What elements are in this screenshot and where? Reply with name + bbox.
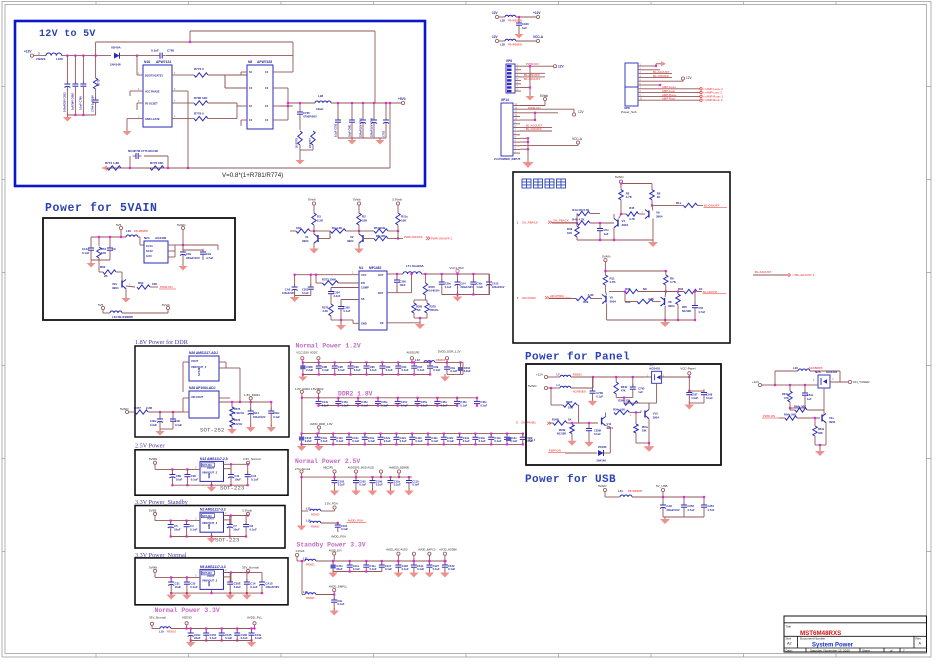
svg-text:R377: R377 [134,406,141,410]
svg-text:PWR-ON: PWR-ON [526,62,539,66]
svg-text:0.1uF: 0.1uF [354,368,361,372]
svg-text:N25: N25 [815,370,821,374]
svg-text:GND: GND [208,581,211,587]
svg-text:BL-ADJUST: BL-ADJUST [524,77,541,81]
svg-text:S2 D2: S2 D2 [146,250,153,253]
svg-text:0.1uF: 0.1uF [273,415,280,419]
svg-text:10uF: 10uF [176,478,183,482]
svg-text:3.3Vstb: 3.3Vstb [392,198,403,202]
svg-text:R771: R771 [97,79,101,86]
svg-text:Power for 5VAIN: Power for 5VAIN [45,202,158,215]
svg-text:0.1uF: 0.1uF [151,49,159,53]
svg-text:2.2uF: 2.2uF [306,368,313,372]
svg-text:10K: 10K [101,251,106,255]
svg-text:APW7124: APW7124 [156,60,171,64]
svg-text:R779 0: R779 0 [194,112,204,116]
svg-text:+12V: +12V [752,380,759,384]
svg-text:10K: 10K [296,226,301,230]
svg-text:C795: C795 [638,387,645,391]
svg-text:2.4K/1%: 2.4K/1% [234,411,245,415]
svg-text:0.1uF: 0.1uF [361,403,368,407]
svg-text:CA6: CA6 [285,288,291,292]
svg-text:5VMN: 5VMN [149,457,157,461]
svg-text:R62: R62 [100,265,106,269]
svg-text:R379: R379 [429,285,436,289]
svg-text:10uF: 10uF [174,528,181,532]
svg-text:5V_USB: 5V_USB [656,484,668,488]
svg-text:5VAIN: 5VAIN [602,255,610,259]
svg-text:5VAIN: 5VAIN [177,223,185,227]
svg-text:C914: C914 [253,411,260,415]
svg-text:C354: C354 [707,504,714,508]
svg-text:N16: N16 [144,60,150,64]
svg-text:0.1uF: 0.1uF [322,368,329,372]
svg-text:2.2uF: 2.2uF [234,585,242,589]
svg-text:5Vstb: 5Vstb [353,198,361,202]
svg-text:VCC: VCC [361,273,367,277]
svg-text:NC: NC [643,287,647,291]
svg-text:AVDD_ADC AUD0: AVDD_ADC AUD0 [386,548,408,552]
svg-text:L71 10uH/3A: L71 10uH/3A [406,264,425,268]
svg-text:33K: 33K [818,431,823,435]
svg-text:AVDD_DVI: AVDD_DVI [329,548,342,552]
svg-text:1.8V Power for DDR: 1.8V Power for DDR [135,339,189,346]
svg-text:C309: C309 [400,280,407,284]
svg-text:G D3: G D3 [146,255,152,258]
svg-text:R34B: R34B [559,428,566,432]
svg-text:GND: GND [208,473,211,479]
svg-text:0.040/1%: 0.040/1% [429,289,441,293]
svg-text:0.1uF: 0.1uF [448,567,455,571]
svg-text:N13 AMS1117-2.5: N13 AMS1117-2.5 [200,457,228,461]
svg-text:1.8V_DDR2: 1.8V_DDR2 [244,393,260,397]
svg-text:Normal Power 3.3V: Normal Power 3.3V [155,607,220,614]
svg-text:R30: R30 [625,287,631,291]
svg-text:FB0603: FB0603 [306,564,315,567]
svg-text:C25M: C25M [594,429,601,433]
svg-text:12V: 12V [492,35,499,39]
svg-text:CA8: CA8 [666,504,672,508]
svg-text:0.1uF: 0.1uF [210,636,217,640]
svg-text:0.1uF: 0.1uF [433,368,440,372]
svg-text:NC/10K: NC/10K [557,432,566,436]
svg-text:10K: 10K [567,231,572,235]
svg-text:22uF: 22uF [336,567,343,571]
svg-text:0.1uF: 0.1uF [384,439,391,443]
svg-text:20 R778: 20 R778 [295,138,299,148]
svg-text:0.1uF: 0.1uF [381,403,388,407]
svg-text:1N4148: 1N4148 [596,459,606,463]
svg-text:4.7K: 4.7K [610,280,617,284]
svg-text:AMP-Rout-: AMP-Rout- [662,97,676,101]
svg-text:R375: R375 [234,407,241,411]
svg-text:S1 D1: S1 D1 [146,245,153,248]
svg-text:Saturday, November 13, 2010: Saturday, November 13, 2010 [810,649,850,653]
svg-text:Power_Sub: Power_Sub [621,110,637,114]
svg-text:N28 AP1084-ADJ: N28 AP1084-ADJ [189,386,216,390]
svg-text:Title: Title [786,625,792,629]
svg-text:47K: 47K [621,389,626,393]
svg-text:FB: FB [380,321,384,325]
svg-text:100uF/16V: 100uF/16V [265,585,279,589]
svg-text:AVBD25_BDM0D: AVBD25_BDM0D [389,466,409,470]
svg-text:5V5: 5V5 [116,223,122,227]
svg-text:Power for Panel: Power for Panel [525,352,630,364]
svg-text:N5 AMS1117-3.3: N5 AMS1117-3.3 [200,565,226,569]
svg-text:C91x: C91x [194,633,201,637]
svg-text:0.1uF: 0.1uF [596,395,603,399]
svg-text:0.1uF: 0.1uF [250,528,258,532]
svg-text:0.1uF: 0.1uF [706,396,713,400]
svg-text:10K: 10K [401,219,407,223]
svg-text:AVDD_PGA: AVDD_PGA [331,535,346,539]
svg-text:4.7uF: 4.7uF [698,310,705,314]
svg-text:XP6: XP6 [506,59,512,63]
svg-text:VOUT: VOUT [207,574,215,578]
svg-text:N26 AMS1117-ADJ: N26 AMS1117-ADJ [189,351,218,355]
svg-text:5Vstb: 5Vstb [162,303,170,307]
svg-text:FB223: FB223 [36,57,45,61]
svg-text:VCC-A: VCC-A [572,137,583,141]
svg-text:4.7K: 4.7K [629,217,635,221]
svg-text:1N4148: 1N4148 [110,63,121,67]
svg-text:AVDD_DMPLL: AVDD_DMPLL [329,584,348,588]
svg-text:0.1uF: 0.1uF [463,439,470,443]
svg-text:EN: EN [361,281,365,285]
svg-text:2.2uF: 2.2uF [464,369,471,373]
svg-text:1uF: 1uF [604,232,609,236]
svg-text:C136: C136 [241,633,248,637]
svg-text:3904: 3904 [112,286,119,290]
svg-text:3904: 3904 [302,239,309,243]
svg-text:0.1uF: 0.1uF [322,403,329,407]
svg-text:Date:: Date: [786,649,793,653]
svg-text:-NC/FB0805: -NC/FB0805 [572,391,587,394]
svg-text:100uF/25V C812: 100uF/25V C812 [63,92,67,112]
svg-text:R776 10K: R776 10K [150,161,164,165]
svg-text:0.1uF: 0.1uF [421,403,428,407]
svg-text:0.1uF: 0.1uF [368,439,375,443]
svg-text:R64x 55K: R64x 55K [784,413,796,417]
svg-text:BL-ADJUST: BL-ADJUST [755,270,772,274]
svg-text:R774 1.8K: R774 1.8K [105,161,120,165]
svg-text:3904: 3904 [829,420,836,424]
svg-text:5V5: 5V5 [98,303,104,307]
svg-text:22 R777: 22 R777 [308,138,312,148]
svg-text:10uF: 10uF [234,478,241,482]
svg-text:0.1uF: 0.1uF [445,286,452,289]
svg-text:C764 1uF/16V: C764 1uF/16V [91,95,95,112]
svg-text:COMP: COMP [361,286,369,290]
svg-text:0.1uF: 0.1uF [447,439,454,443]
svg-text:<<BL-ADJUST 2: <<BL-ADJUST 2 [792,273,815,277]
svg-text:R773 0: R773 0 [194,67,204,71]
svg-text:ON_PBACK: ON_PBACK [522,220,538,224]
svg-text:0.1uF: 0.1uF [321,439,328,443]
svg-text:0.1uF: 0.1uF [225,636,232,640]
svg-text:4.7K: 4.7K [670,280,677,284]
svg-text:ON_PBACK: ON_PBACK [553,219,569,223]
svg-text:3904: 3904 [668,304,675,308]
svg-text:FB-/FB0805: FB-/FB0805 [134,229,149,233]
svg-text:100uF/16V: 100uF/16V [282,291,295,295]
svg-text:C353: C353 [687,504,694,508]
svg-text:BL-ON/OFF: BL-ON/OFF [704,204,720,208]
svg-text:3.3nF: 3.3nF [334,294,341,298]
svg-text:R380: R380 [416,305,423,309]
svg-text:0.1uF: 0.1uF [344,309,351,313]
svg-text:5VAIN: 5VAIN [528,384,536,388]
svg-text:<<AMP-Rout- 2: <<AMP-Rout- 2 [703,98,723,102]
svg-text:AVDD2P5_MOD AU25: AVDD2P5_MOD AU25 [348,466,375,470]
svg-text:R4 4.3K: R4 4.3K [332,226,342,230]
svg-text:C30: C30 [175,419,180,423]
svg-text:VDD33: VDD33 [182,616,192,620]
svg-text:Size: Size [786,637,792,641]
svg-text:GND: GND [208,524,211,530]
svg-text:4.7K: 4.7K [626,195,633,199]
svg-text:10uH: 10uH [316,107,323,111]
svg-text:5Vstb: 5Vstb [308,198,316,202]
svg-text:330uF/10V: 330uF/10V [186,256,200,260]
svg-text:SOT-223: SOT-223 [215,537,240,544]
svg-text:PWR-ON: PWR-ON [763,414,775,418]
svg-text:FB OCSET: FB OCSET [145,103,158,106]
svg-text:R378: R378 [430,305,437,309]
svg-text:FB0603: FB0603 [306,597,315,600]
svg-text:DVDD_DDR_1.2V: DVDD_DDR_1.2V [438,350,461,354]
svg-text:PWR-ON: PWR-ON [549,449,561,453]
svg-text:3904: 3904 [653,415,660,419]
svg-text:0.1uF: 0.1uF [400,439,407,443]
svg-text:R376: R376 [234,418,241,422]
svg-text:+12V: +12V [536,373,543,377]
svg-text:0.1uF: 0.1uF [415,439,422,443]
svg-text:L23: L23 [126,229,131,233]
svg-text:SOT-252: SOT-252 [200,427,225,434]
svg-text:1uF: 1uF [522,26,527,30]
svg-text:N8: N8 [248,60,252,64]
svg-text:AVDD_PGA: AVDD_PGA [348,519,364,523]
svg-text:4.3K: 4.3K [588,293,594,297]
svg-text:MP1482: MP1482 [369,266,381,270]
svg-text:C9: C9 [112,247,116,251]
svg-text:GND: GND [361,322,367,326]
svg-text:L15: L15 [306,507,311,511]
svg-text:VIN VOUT: VIN VOUT [191,395,204,399]
svg-text:0.1uF: 0.1uF [250,585,258,589]
svg-text:AVOD_NODB0: AVOD_NODB0 [439,548,457,552]
svg-text:R5 NC/B: R5 NC/B [374,226,385,230]
svg-text:Rev: Rev [916,637,922,641]
svg-text:L41: L41 [618,489,623,493]
svg-text:0.1uF: 0.1uF [191,478,199,482]
svg-text:ADJ-PWM: ADJ-PWM [522,296,536,300]
svg-text:FB-/FB0805: FB-/FB0805 [628,489,643,493]
svg-text:2.5V_PGA: 2.5V_PGA [325,502,338,506]
svg-text:ADJ-PWM: ADJ-PWM [550,294,564,298]
svg-text:C81x: C81x [807,393,814,397]
svg-text:C765: C765 [167,49,175,53]
svg-text:PWR-ON/OFF 2: PWR-ON/OFF 2 [431,237,452,241]
svg-text:C763: C763 [383,130,386,137]
svg-text:VCC PHASE: VCC PHASE [145,91,160,94]
svg-text:R45: R45 [629,206,635,210]
svg-text:ON_TUNER: ON_TUNER [853,380,870,384]
svg-text:R373 100K: R373 100K [322,278,336,282]
svg-text:R28: R28 [625,300,631,304]
svg-text:SS: SS [361,297,365,301]
svg-text:10uF: 10uF [175,585,182,589]
svg-text:3.3K: 3.3K [323,309,329,313]
svg-text:10nF: 10nF [400,283,406,287]
svg-text:0.1uF: 0.1uF [460,403,467,407]
svg-text:33V_Normal: 33V_Normal [242,565,259,569]
svg-text:C135: C135 [225,633,232,637]
svg-text:NC/4P7M C775 NC/10K: NC/4P7M C775 NC/10K [128,149,158,153]
svg-text:3.3Vstb: 3.3Vstb [296,549,305,553]
svg-text:SOT-223: SOT-223 [220,485,245,492]
svg-text:+12V: +12V [533,11,541,15]
svg-text:10uF: 10uF [233,528,240,532]
svg-text:AVDD_PLL: AVDD_PLL [247,616,262,620]
svg-text:R346 22K: R346 22K [618,399,630,403]
svg-text:0.1uF: 0.1uF [510,439,517,443]
svg-text:R345: R345 [566,400,573,404]
svg-text:100/1%: 100/1% [430,308,439,312]
svg-text:10K: 10K [152,282,158,286]
svg-text:C304: C304 [334,291,341,295]
svg-text:33V_Normal: 33V_Normal [149,616,166,620]
svg-text:N2 AMS1117-3.3: N2 AMS1117-3.3 [200,508,226,512]
svg-text:5VAIN: 5VAIN [598,484,606,488]
svg-text:0.1uF: 0.1uF [82,251,90,255]
svg-text:0.1uF: 0.1uF [480,403,487,407]
svg-text:BL-ON/OFF: BL-ON/OFF [526,127,542,131]
svg-text:12V: 12V [578,110,585,114]
svg-text:Standby Power 3.3V: Standby Power 3.3V [297,542,366,549]
svg-text:47K: 47K [784,396,789,400]
svg-text:L96: L96 [318,94,324,98]
svg-text:VD40A: VD40A [111,46,122,50]
svg-text:5VMN: 5VMN [149,565,157,569]
svg-text:L19: L19 [159,630,164,634]
svg-text:VOUT: VOUT [191,359,199,363]
svg-text:Normal Power 1.2V: Normal Power 1.2V [296,343,361,350]
svg-text:L28: L28 [500,19,505,23]
svg-text:A2: A2 [787,642,792,646]
svg-text:0.1uF: 0.1uF [352,439,359,443]
svg-text:R4B 4.7K: R4B 4.7K [572,218,584,222]
svg-text:L4: L4 [557,383,561,387]
svg-text:5VAIN: 5VAIN [615,175,623,179]
svg-text:3904: 3904 [656,215,663,219]
svg-text:+5V3: +5V3 [398,97,406,101]
svg-text:L18: L18 [303,590,308,594]
svg-text:VCC-A: VCC-A [533,35,544,39]
svg-text:1K: 1K [568,418,571,422]
svg-text:0.1uF: 0.1uF [402,368,409,372]
svg-text:R4A NC/4.7K: R4A NC/4.7K [572,208,589,212]
svg-text:0.1uF: 0.1uF [376,483,383,487]
svg-text:L22: L22 [793,366,798,370]
svg-text:2.2R: 2.2R [146,406,153,410]
svg-text:NC/10K: NC/10K [682,309,691,313]
svg-text:2.5V Power: 2.5V Power [135,443,164,450]
svg-text:1.0uF: 1.0uF [476,286,483,289]
svg-text:R34x 10K: R34x 10K [613,408,625,412]
svg-text:1uF: 1uF [807,397,812,401]
svg-text:L17: L17 [303,557,308,561]
svg-text:R64x: R64x [782,392,789,396]
svg-text:ZJ-POWER_INPUT: ZJ-POWER_INPUT [494,157,521,161]
svg-text:100uF/10V: 100uF/10V [253,415,266,419]
svg-text:3904: 3904 [610,300,617,304]
svg-text:10K: 10K [642,429,647,433]
svg-text:0.1uF: 0.1uF [385,567,392,571]
svg-text:L34 FB-/FB0805: L34 FB-/FB0805 [112,315,133,319]
svg-text:0.1uF: 0.1uF [394,483,401,487]
svg-text:2.2uF: 2.2uF [305,439,312,443]
svg-text:0.1uF: 0.1uF [255,636,262,640]
svg-text:5Vstb: 5Vstb [540,94,548,98]
svg-text:OUT: OUT [378,273,384,277]
svg-text:1uF: 1uF [638,390,643,394]
svg-text:0.1uF: 0.1uF [370,567,377,571]
svg-text:APW7328: APW7328 [257,60,272,64]
svg-text:0.1uF: 0.1uF [433,567,440,571]
svg-text:12V: 12V [558,65,565,69]
svg-text:5VAIN: 5VAIN [120,407,128,411]
svg-text:5V5B: 5V5B [149,508,156,512]
svg-text:L106: L106 [56,57,63,61]
svg-text:4700P/50V: 4700P/50V [303,115,317,119]
svg-text:AVDD_BAPC0: AVDD_BAPC0 [418,548,436,552]
svg-text:220uF/16V C761: 220uF/16V C761 [360,117,363,137]
svg-text:220uF/16V C760: 220uF/16V C760 [371,117,374,137]
svg-text:0.1uF: 0.1uF [450,369,457,373]
svg-text:N1: N1 [359,266,363,270]
svg-text:V=0.8*(1+R781/R774): V=0.8*(1+R781/R774) [222,172,283,179]
svg-text:R32: R32 [678,287,684,291]
svg-text:4.7uF: 4.7uF [206,256,214,260]
svg-text:BL-ADJUST: BL-ADJUST [703,290,718,294]
svg-text:R64x: R64x [818,427,825,431]
svg-text:L7: L7 [557,373,561,377]
svg-text:FB-/FB0805: FB-/FB0805 [508,43,523,47]
svg-text:C167: C167 [691,393,698,397]
svg-text:VOUT: VOUT [207,466,215,470]
svg-text:FB0603: FB0603 [311,514,320,517]
svg-text:0.1uF: 0.1uF [302,291,309,295]
svg-text:VD10K: VD10K [598,445,607,449]
svg-text:-FB0805: -FB0805 [572,374,582,377]
svg-text:R375: R375 [322,306,329,310]
svg-text:Normal Power 2.5V: Normal Power 2.5V [295,458,360,465]
svg-text:0.1uF: 0.1uF [190,528,198,532]
svg-text:0.1uF: 0.1uF [338,368,345,372]
svg-text:1.0uF: 1.0uF [691,396,698,400]
svg-text:2.2uF: 2.2uF [150,423,157,427]
svg-text:PWR-ON/OFF: PWR-ON/OFF [404,235,423,239]
svg-text:FB0603: FB0603 [167,631,176,634]
svg-text:Sheet: Sheet [862,649,870,653]
svg-text:C301: C301 [302,288,309,292]
svg-text:C30x: C30x [273,411,280,415]
svg-text:R340: R340 [621,385,628,389]
svg-text:XP14: XP14 [501,98,509,102]
svg-text:BAT: BAT [378,291,384,295]
